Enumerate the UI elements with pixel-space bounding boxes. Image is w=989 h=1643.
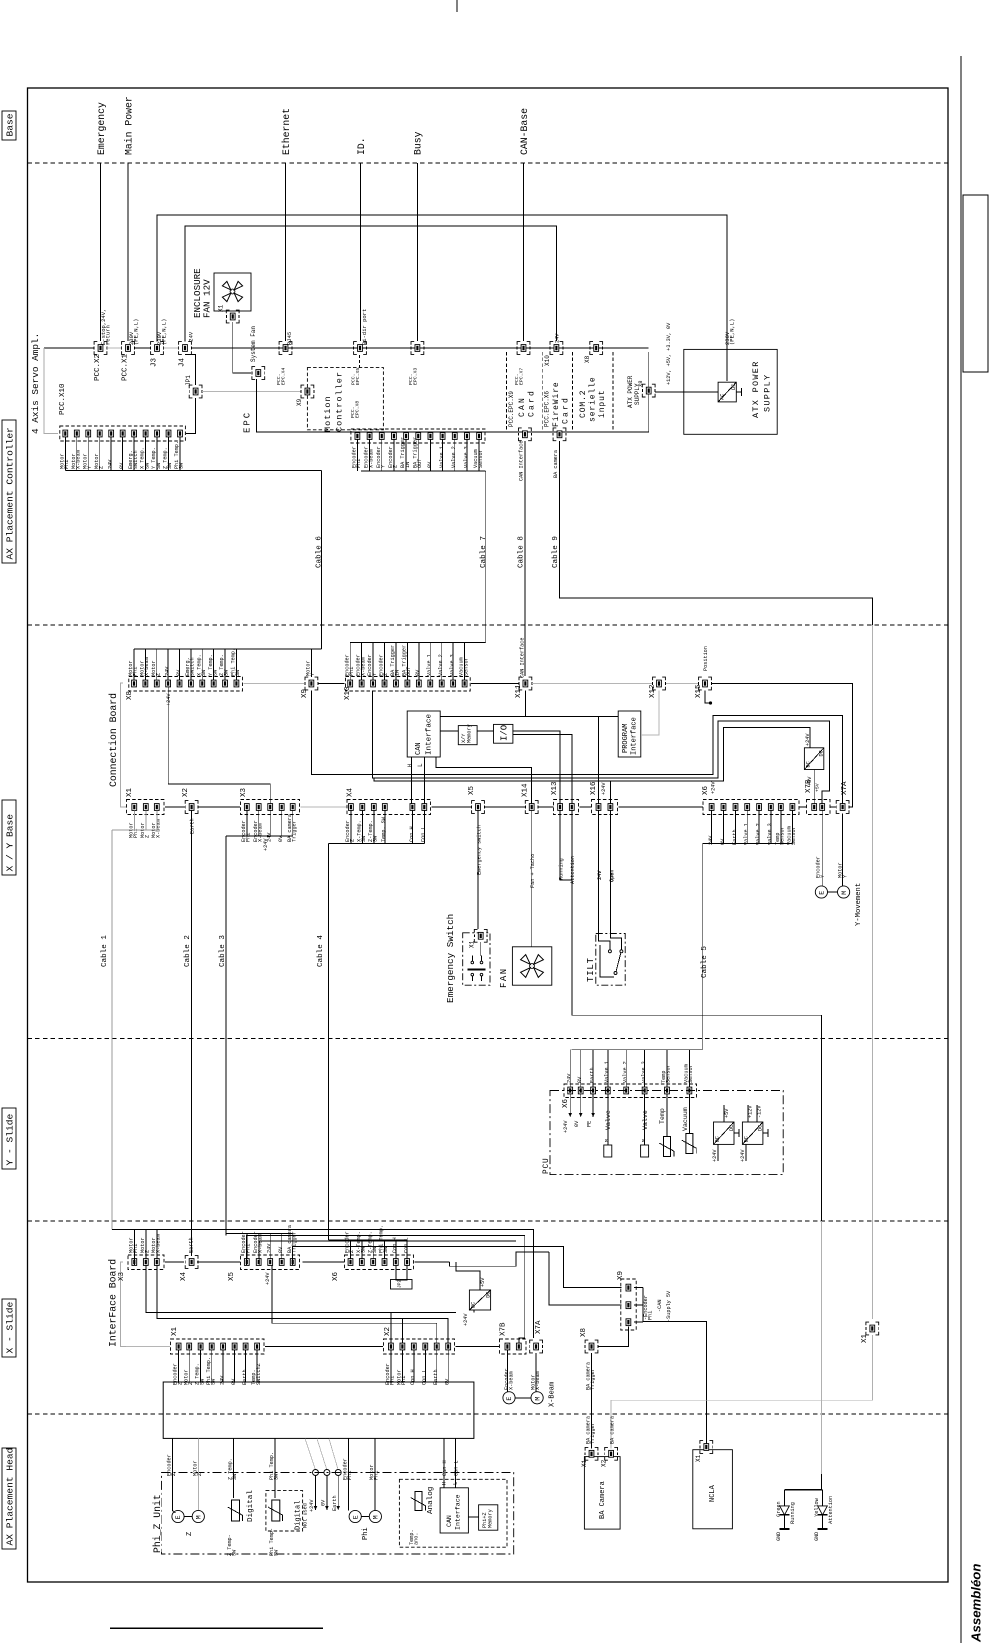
wire to cable 5 bundle [723, 810, 725, 843]
svg-text:PCC.X10: PCC.X10 [59, 383, 67, 415]
pin X10-2 [359, 680, 364, 687]
pin PCC.EPC.X8-3 [379, 433, 384, 440]
connector X1 NCLA [704, 1444, 709, 1451]
svg-text:Con L: Con L [422, 1369, 428, 1385]
wire to cable 3 bundle [246, 810, 248, 836]
wire pin to trunk [178, 1350, 180, 1382]
svg-text:EPC.X4: EPC.X4 [281, 368, 287, 385]
connector group X16 [592, 800, 618, 815]
svg-text:+24V: +24V [563, 1120, 569, 1133]
wire bundle to pin [666, 1050, 668, 1087]
pin X8-1 [132, 680, 137, 687]
thermistor analog [411, 1492, 426, 1511]
wire bundle to pin [246, 1234, 248, 1259]
svg-text:+24V: +24V [740, 1149, 746, 1162]
svg-text:Can H: Can H [442, 1460, 448, 1476]
wire pin up to cable 7 bundle [384, 643, 386, 680]
svg-text:PROGRAM: PROGRAM [622, 724, 630, 753]
wire pin to trunk [256, 1350, 258, 1382]
wire 24V from X8 [168, 687, 270, 804]
wire to ring earth [329, 1439, 338, 1470]
wire attention gray [820, 1221, 822, 1474]
wire JP1 to Motion Controller X9 [202, 391, 301, 393]
wire bundle to pin [269, 1234, 271, 1259]
wire +24V [745, 1144, 747, 1161]
svg-text:X7B: X7B [500, 1322, 508, 1336]
pin PCC.EPC.X8-2 [367, 433, 372, 440]
svg-text:PCC.EPC.X6: PCC.EPC.X6 [544, 391, 551, 427]
wire to cable 5 bundle [758, 810, 760, 843]
svg-text:AX Placement Controller: AX Placement Controller [5, 427, 16, 559]
CAN card slot dashed [506, 352, 508, 432]
wire pin to cable 7 bundle [417, 440, 419, 471]
pin X1i-7 [243, 1343, 248, 1350]
svg-text:IN: IN [395, 670, 401, 676]
wire pin to cable 7 bundle [478, 440, 480, 471]
wire X9 to NCLA [643, 1322, 707, 1445]
bus encoder X-beam a [225, 1234, 227, 1236]
wire tilt open [610, 810, 621, 949]
svg-text:H: H [407, 764, 413, 767]
svg-text:Con H: Con H [409, 826, 415, 842]
svg-text:BA camera: BA camera [610, 1416, 616, 1444]
svg-text:+24V: +24V [166, 693, 172, 706]
svg-text:X5: X5 [468, 785, 476, 795]
wire E-M Phi [361, 1516, 369, 1518]
cable4 lower bundle [328, 1239, 330, 1241]
svg-text:+12V, +5V, +3.3V, 0V: +12V, +5V, +3.3V, 0V [666, 322, 672, 385]
wire pin to cable 7 bundle [393, 440, 395, 471]
DC/DC converter xy [804, 748, 823, 770]
svg-text:X-Beam: X-Beam [549, 1382, 557, 1407]
wire pin up to cable 6 bundle [144, 649, 146, 680]
terminal bar [736, 391, 741, 393]
wire bundle to pin [384, 1240, 386, 1259]
wire Z temp [232, 1439, 234, 1498]
wire pin to trunk [424, 1350, 426, 1382]
svg-text:Emergency switch: Emergency switch [477, 825, 483, 875]
pin PCC.X10-8 [143, 430, 148, 437]
wire X2-X7B [456, 1346, 500, 1348]
svg-text:Phi: Phi [648, 1311, 654, 1320]
Emergency Switch box [463, 933, 490, 985]
wire to ring 24V [305, 1439, 316, 1470]
svg-text:switch: switch [190, 657, 196, 676]
svg-text:X-beam: X-beam [257, 1234, 263, 1253]
wire CAN to memory head [468, 1516, 478, 1518]
svg-text:Fan + Tacho: Fan + Tacho [530, 854, 536, 888]
wire X8 to BA camera [591, 1353, 593, 1449]
svg-text:Green: Green [776, 1501, 782, 1517]
wire to cable 3 bundle [281, 810, 283, 836]
wire encoder X-beam [506, 1350, 508, 1392]
pin PCC.X10-4 [97, 430, 102, 437]
svg-text:-CAN: -CAN [657, 1300, 663, 1312]
DC/DC interface [469, 1290, 490, 1310]
svg-text:DC: DC [731, 384, 737, 390]
svg-text:PCC.X1: PCC.X1 [122, 353, 130, 381]
section label AX Placement Head [2, 1448, 16, 1549]
svg-text:SW: SW [232, 1549, 238, 1556]
wire pin up to cable 6 bundle [213, 649, 215, 680]
motor Y circle [838, 886, 850, 898]
connector row PCC.EPC.X8 [351, 429, 485, 443]
svg-text:0V: 0V [278, 1246, 284, 1253]
connector group X6 interface [345, 1255, 414, 1270]
svg-text:Con L: Con L [421, 826, 427, 842]
pin X6-3 [733, 804, 738, 811]
svg-text:Vacuum: Vacuum [682, 1107, 689, 1131]
cable 4 wire [328, 844, 330, 1241]
svg-text:Sensor: Sensor [463, 657, 469, 676]
pin X1-2 [143, 804, 148, 811]
svg-text:Cable 2: Cable 2 [184, 935, 192, 967]
svg-text:E: E [819, 891, 826, 895]
pin X4-6 [422, 804, 427, 811]
svg-text:EPC.X5: EPC.X5 [355, 368, 361, 385]
pin X3i-1 [132, 1259, 137, 1266]
pin X4-2 [360, 804, 365, 811]
wire tilt open from bus [609, 781, 611, 803]
svg-text:Base: Base [5, 113, 16, 136]
wire to cable 1 bundle [145, 810, 147, 830]
svg-text:X6: X6 [332, 1271, 340, 1281]
svg-text:System Fan: System Fan [250, 326, 257, 362]
svg-text:Emergency: Emergency [96, 102, 107, 155]
svg-text:Sensor: Sensor [478, 449, 484, 468]
pin X10-3 [371, 680, 376, 687]
pin PCC.EPC.X8-10 [465, 433, 470, 440]
pin X8-10 [234, 680, 239, 687]
wire bundle to pin [133, 1229, 135, 1258]
svg-text:Z: Z [145, 1250, 151, 1253]
wire PCC.X1-J3 [135, 347, 151, 349]
svg-text:Encoder: Encoder [376, 446, 382, 468]
arrow +24V [569, 1094, 571, 1117]
svg-text:return: return [105, 325, 112, 345]
wire pin up to cable 6 bundle [156, 649, 158, 680]
wire bundle to pin [292, 1234, 294, 1259]
wire PCC.X2-PCC.X1 [107, 347, 122, 349]
svg-text:X2: X2 [384, 1327, 392, 1336]
svg-text:EPC.X7: EPC.X7 [519, 368, 525, 385]
wire J4 24V to FireWire X10 [185, 226, 556, 342]
wire encoder Phi [347, 1439, 349, 1511]
wire to cable 5 bundle [711, 810, 713, 843]
wire to cable 1 bundle [133, 810, 135, 830]
svg-text:X3: X3 [240, 787, 248, 797]
bus wire B encoder Y [373, 691, 830, 804]
wire bundle to pin [625, 1050, 627, 1087]
svg-text:+24V: +24V [265, 1272, 271, 1285]
svg-text:Earth: Earth [189, 1237, 195, 1253]
wire +12V [747, 1105, 749, 1122]
svg-text:CAN: CAN [518, 396, 527, 417]
section label X - Slide [2, 1299, 16, 1357]
svg-text:Memory: Memory [467, 724, 473, 743]
pin X6-1 [709, 804, 714, 811]
pin X10-5 [394, 680, 399, 687]
svg-text:Z: Z [383, 673, 389, 676]
svg-text:+24V: +24V [601, 782, 607, 795]
wire pin to cable 6 bundle [179, 437, 181, 470]
wire encoder Y [821, 810, 823, 886]
svg-text:+5V: +5V [815, 783, 821, 792]
svg-text:RJ45: RJ45 [286, 332, 293, 345]
wire attention [572, 810, 822, 1221]
pin X1i-5 [221, 1343, 226, 1350]
pin X7B-2 [820, 804, 825, 811]
svg-text:ATX POWER: ATX POWER [751, 360, 761, 418]
pin X13-2 [569, 804, 574, 811]
svg-text:SW: SW [274, 1549, 280, 1556]
pin X6i-6 [405, 1259, 410, 1266]
thermistor phi [268, 1500, 283, 1521]
wire to cable 3 bundle [292, 810, 294, 836]
wire bus to X2b [401, 1319, 403, 1344]
svg-text:Controller: Controller [335, 371, 345, 432]
svg-text:Encoder: Encoder [816, 856, 822, 878]
wire X15 to X7A [712, 684, 852, 808]
svg-text:FAN 12V: FAN 12V [202, 279, 213, 318]
svg-text:GND: GND [776, 1532, 782, 1541]
bus corner A [450, 1252, 549, 1266]
pin X6-5 [757, 804, 762, 811]
svg-text:X-beam: X-beam [144, 657, 150, 676]
divider X-Slide / AX Placement Head [28, 1413, 949, 1415]
svg-text:Earth: Earth [590, 1067, 596, 1083]
svg-text:Z: Z [145, 835, 151, 838]
connector X15 [703, 680, 708, 687]
arrow 0V [326, 1475, 328, 1510]
svg-text:X8: X8 [637, 380, 644, 387]
svg-text:CAN Interface: CAN Interface [519, 441, 525, 481]
wire Can H [443, 1439, 445, 1488]
svg-text:CAN Interface: CAN Interface [520, 638, 526, 678]
svg-text:Earth: Earth [242, 1369, 248, 1385]
connector group X7B [807, 800, 831, 815]
pin X8-4 [166, 680, 171, 687]
wire X1-X2 [265, 1346, 383, 1348]
wire pin to trunk [401, 1350, 403, 1382]
svg-text:+5V: +5V [480, 1277, 486, 1287]
svg-text:(PE,N,L): (PE,N,L) [729, 319, 736, 345]
svg-text:Encoder: Encoder [379, 654, 385, 676]
svg-text:E: E [175, 1515, 182, 1519]
wire X1 to BA camera X2 [611, 1335, 872, 1449]
trunk cable rectangle [163, 1382, 474, 1438]
svg-text:Cable 3: Cable 3 [219, 935, 227, 967]
connector X9 motion controller [305, 388, 310, 395]
emergency switch symbol [480, 942, 482, 956]
wire pin to trunk [200, 1350, 202, 1382]
pin X5i-3 [268, 1259, 273, 1266]
dashed link EPC.X5 to motion controller [359, 355, 361, 368]
svg-text:0V: 0V [445, 1378, 451, 1385]
svg-text:Valve 1: Valve 1 [439, 446, 445, 468]
pin X6i-2 [359, 1259, 364, 1266]
svg-text:Yellow: Yellow [814, 1497, 820, 1517]
svg-text:AX Placement Head: AX Placement Head [5, 1448, 16, 1546]
svg-text:I/O: I/O [500, 725, 510, 741]
svg-text:+24V: +24V [712, 1149, 718, 1162]
pin X2i-5 [434, 1343, 439, 1350]
pin X4-3 [371, 804, 376, 811]
cable 3 wire [225, 836, 227, 1234]
svg-text:0V: 0V [231, 1378, 237, 1385]
svg-text:Sensor: Sensor [688, 1064, 694, 1083]
svg-text:M: M [641, 1139, 647, 1142]
svg-text:+24V: +24V [463, 1313, 469, 1326]
svg-text:CAN: CAN [415, 742, 423, 755]
wire CAN-Base [523, 163, 525, 341]
wire X9 pin3 stub [634, 1321, 643, 1323]
svg-text:M: M [841, 891, 848, 895]
svg-text:Valve 2: Valve 2 [756, 823, 762, 845]
wire to cable 3 bundle [258, 810, 260, 836]
pin PCC.EPC.X8-4 [392, 433, 397, 440]
wire ATX X8 to AC/DC [655, 391, 718, 393]
section label Y - Slide [2, 1108, 16, 1169]
label Phi Z Unit [151, 1490, 162, 1552]
wire pin to trunk [211, 1350, 213, 1382]
pin X3i-3 [154, 1259, 159, 1266]
cable 7 lower bundle [350, 642, 486, 644]
svg-text:DC: DC [729, 1125, 735, 1131]
pin X7B-1 [812, 804, 817, 811]
svg-text:SW: SW [167, 462, 173, 469]
Analog dashed box [399, 1479, 507, 1547]
FAN box [512, 947, 551, 985]
wire pin to cable 6 bundle [76, 437, 78, 470]
svg-text:X-beam: X-beam [75, 450, 81, 469]
svg-text:FireWire: FireWire [552, 381, 561, 427]
wire pin to cable 6 bundle [133, 437, 135, 470]
section label Base [2, 111, 16, 140]
bus BA trigger [293, 1247, 622, 1288]
wire J4-EPC row [192, 347, 280, 349]
svg-text:X-beam: X-beam [360, 657, 366, 676]
svg-text:X2: X2 [601, 1459, 608, 1467]
wire bundle to pin [372, 1240, 374, 1259]
svg-text:OUT: OUT [406, 667, 412, 676]
cable 9 wire [560, 441, 873, 625]
pin X1i-6 [232, 1343, 237, 1350]
svg-text:Cable 1: Cable 1 [101, 935, 109, 967]
cable 6 bundle [65, 469, 321, 471]
wire pin to cable 7 bundle [356, 440, 358, 471]
arrow PE [592, 1094, 594, 1117]
wire pin to trunk [245, 1350, 247, 1382]
wire X6 row to right [415, 1261, 450, 1263]
svg-text:X1: X1 [126, 787, 134, 797]
Phi+Z memory box [479, 1505, 498, 1530]
svg-text:DC: DC [485, 1292, 491, 1298]
pin X8-3 [154, 680, 159, 687]
svg-text:X1: X1 [469, 940, 476, 948]
svg-text:X6: X6 [702, 785, 710, 795]
wire to ring 0V [317, 1439, 327, 1470]
cable 3 bundle [226, 835, 293, 837]
wire X9 to X10 row [319, 683, 345, 685]
cable 1 wire [111, 830, 113, 1229]
svg-text:+24V: +24V [263, 838, 269, 851]
wire bundle to pin [395, 1240, 397, 1259]
wire to cable 5 bundle [770, 810, 772, 843]
wire pin to cable 6 bundle [87, 437, 89, 470]
svg-text:Cable 8: Cable 8 [518, 536, 526, 568]
svg-text:InterFace Board: InterFace Board [108, 1259, 119, 1347]
svg-text:X-beam: X-beam [509, 1371, 515, 1390]
connector PCC.EPC.X3 [415, 345, 420, 352]
pin PCC.X10-11 [178, 430, 183, 437]
connector row X10 connection board [346, 677, 471, 692]
wire CAN box to X14 [436, 757, 532, 804]
wire pin up to cable 6 bundle [224, 649, 226, 680]
connector group X13 [554, 800, 579, 815]
svg-text:Open: Open [610, 870, 616, 882]
svg-text:DC: DC [744, 1136, 750, 1142]
svg-text:Valve 2: Valve 2 [438, 654, 444, 676]
svg-text:X6: X6 [562, 1098, 570, 1108]
wire CAN to memory [440, 730, 458, 732]
pin X5i-5 [290, 1259, 295, 1266]
wire Con L [454, 1439, 456, 1488]
pin PCC.X10-9 [155, 430, 160, 437]
Motion Controller dashed box [307, 368, 383, 430]
svg-text:-Supply 5V: -Supply 5V [666, 1290, 672, 1322]
bus wire A motor Y [311, 691, 842, 804]
wire slant to encoder [172, 1511, 175, 1513]
svg-text:Z: Z [197, 1473, 203, 1476]
wire -12V [756, 1105, 758, 1122]
svg-text:X5: X5 [228, 1271, 236, 1281]
pin X5i-1 [244, 1259, 249, 1266]
svg-text:EPC.X3: EPC.X3 [413, 368, 419, 385]
cable 9 wire gray part [871, 625, 873, 1319]
wire J3-J4 [164, 347, 179, 349]
encoder X circle [503, 1392, 515, 1404]
wire bundle to pin [592, 1050, 594, 1087]
svg-text:Interface: Interface [455, 1494, 462, 1530]
connector X4 interface [189, 1259, 194, 1266]
wire X9 pin2 stub [634, 1304, 643, 1306]
pin X9i-2 [626, 1302, 631, 1309]
wire bundle to pin [688, 1050, 690, 1087]
svg-text:X-beam: X-beam [368, 449, 374, 468]
connector J4 [183, 345, 188, 352]
pin X10-4 [382, 680, 387, 687]
pin X6i-3 [371, 1259, 376, 1266]
motor Z circle [192, 1510, 204, 1522]
svg-text:M: M [604, 1139, 610, 1142]
cable 7 wire [485, 471, 487, 643]
svg-text:DC: DC [758, 1125, 764, 1131]
wire X11 to X12 [532, 683, 652, 685]
svg-text:SW: SW [235, 669, 241, 676]
pin X7Bi-1 [505, 1343, 510, 1350]
wire X10 row to X11 [471, 683, 519, 685]
svg-text:ATX POWER: ATX POWER [627, 375, 634, 408]
pin X6i-5 [393, 1259, 398, 1266]
svg-text:X1: X1 [861, 1333, 869, 1343]
pin X1i-2 [187, 1343, 192, 1350]
wire pin up to cable 7 bundle [452, 643, 454, 680]
pin PCC.EPC.X8-9 [452, 433, 457, 440]
card slot divider [572, 352, 574, 432]
svg-text:SW: SW [224, 669, 230, 676]
connector group X1 [127, 800, 165, 815]
